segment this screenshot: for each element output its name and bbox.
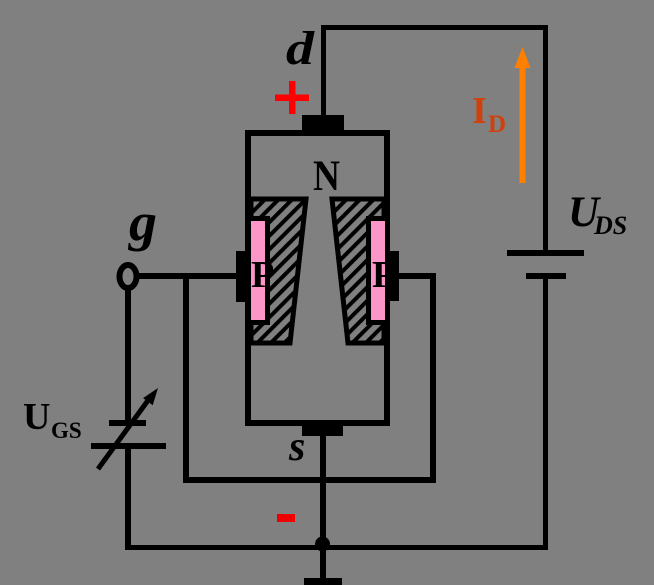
svg-text:N: N	[313, 153, 340, 200]
wire: inner loop left vertical	[183, 276, 189, 483]
wire: right branch lower (UDS bottom)	[543, 279, 548, 550]
arrow across U_GS (variable source)	[98, 388, 158, 469]
minus sign (red)	[277, 514, 295, 522]
battery U_GS long plate (bottom)	[91, 443, 166, 449]
label U_DS	[568, 189, 627, 240]
svg-text:P: P	[251, 254, 274, 296]
svg-text:I: I	[472, 90, 487, 132]
battery U_GS short plate (top)	[109, 420, 146, 426]
wire: gate horizontal to left contact	[138, 273, 242, 279]
drain contact (black)	[302, 115, 344, 130]
wire: drain vertical	[321, 25, 326, 117]
svg-text:d: d	[286, 22, 315, 75]
gate contact left (black)	[236, 251, 251, 302]
wire: inner loop bottom horizontal	[183, 477, 436, 483]
wire: inner loop right vertical	[430, 276, 436, 483]
label I_D	[472, 90, 506, 138]
svg-text:U: U	[23, 396, 50, 438]
wire: source vertical	[320, 436, 326, 578]
wire: left branch upper (g to UGS)	[125, 288, 131, 420]
source contact (black)	[302, 424, 343, 436]
svg-text:DS: DS	[593, 211, 627, 240]
ground bar	[304, 578, 342, 585]
P region right (pink)	[369, 219, 388, 323]
P region left (pink)	[249, 219, 268, 323]
wire: bottom horizontal	[125, 545, 548, 550]
wire: right branch upper (UDS top)	[543, 25, 548, 251]
svg-text:g: g	[128, 192, 157, 252]
battery U_DS long plate (+)	[507, 250, 584, 256]
plus sign (red)	[275, 81, 309, 114]
battery U_DS short plate (-)	[526, 273, 566, 279]
svg-text:D: D	[488, 111, 506, 138]
wire: left branch lower (UGS to bottom)	[125, 449, 131, 550]
junction node	[315, 537, 330, 552]
label U_GS	[23, 396, 82, 443]
gate terminal circle	[120, 265, 137, 288]
wire: right gate contact horizontal	[396, 273, 436, 279]
depletion region left (hatched)	[251, 199, 306, 343]
gate contact right (black)	[388, 251, 399, 301]
wire: top horizontal drain to UDS	[321, 25, 548, 30]
JFET body N region	[248, 133, 387, 423]
depletion region right (hatched)	[332, 199, 384, 343]
svg-text:s: s	[288, 424, 305, 470]
svg-text:GS: GS	[51, 418, 82, 443]
current arrow I_D (orange)	[515, 47, 531, 183]
